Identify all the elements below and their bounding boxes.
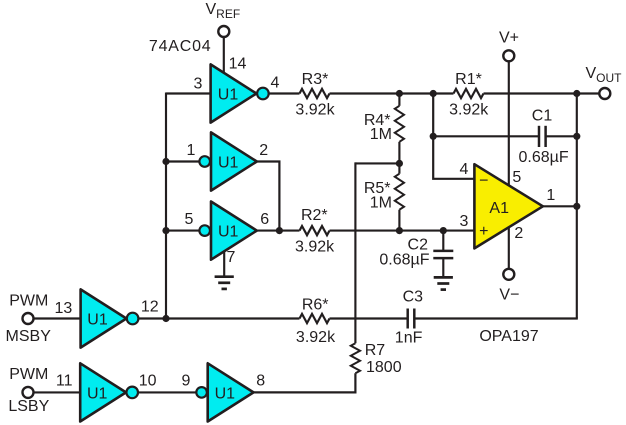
svg-text:U1: U1 [218, 155, 239, 172]
resistor R5 [395, 163, 404, 230]
terminal PWM MSBY [23, 313, 34, 324]
resistor R2 [300, 226, 330, 235]
svg-text:1nF: 1nF [395, 330, 423, 347]
wire: C3 to output column [414, 317, 578, 319]
svg-text:U1: U1 [87, 312, 108, 329]
wire: A1 pin 2 down to V- [508, 227, 510, 269]
resistor R3 [300, 89, 330, 98]
svg-text:OPA197: OPA197 [479, 328, 538, 345]
capacitor C1 [539, 126, 546, 147]
svg-text:+: + [479, 223, 488, 240]
svg-text:R2*: R2* [301, 207, 328, 224]
inverter U1A [211, 64, 257, 122]
svg-text:7: 7 [227, 249, 236, 266]
wire: U1B pin 2 output down to pin 6 node [257, 162, 280, 231]
svg-text:3.92k: 3.92k [296, 329, 336, 346]
svg-text:0.68µF: 0.68µF [379, 252, 429, 269]
svg-text:1M: 1M [370, 195, 392, 212]
wire: LSBY input to U1E [33, 391, 80, 393]
svg-text:PWM: PWM [9, 292, 48, 309]
svg-text:13: 13 [55, 300, 73, 317]
wire: R6 to C3 [330, 317, 408, 319]
pin bubble U1D output (pin 12) [127, 313, 139, 325]
junction (inverting branch top) [430, 90, 437, 97]
wire: A1 output (pin 1) [543, 205, 577, 207]
svg-text:11: 11 [56, 373, 73, 390]
inverter U1D [81, 289, 127, 347]
junction (pin 6 / pin 2 node) [276, 227, 283, 234]
pin bubble U1A output (pin 4) [257, 88, 269, 100]
wire: U1E output to U1F input [138, 391, 195, 393]
svg-text:R7: R7 [365, 342, 386, 359]
svg-text:10: 10 [139, 373, 157, 390]
wire: R4/R5 midpoint to mid column [355, 162, 399, 164]
ground (U1C pin 7) [215, 277, 234, 289]
wire: R3 to R1 [330, 92, 454, 94]
svg-text:1800: 1800 [366, 359, 402, 376]
wire: MSBY input to U1D [33, 317, 80, 319]
junction (R5 bottom on + input net) [396, 227, 403, 234]
svg-text:R1*: R1* [455, 71, 482, 88]
inverter U1F [208, 363, 254, 421]
junction (R4/R5 midpoint) [396, 160, 403, 167]
svg-text:1M: 1M [370, 126, 392, 143]
svg-text:3: 3 [460, 213, 469, 230]
wire: C1 left lead [433, 135, 539, 137]
svg-text:V−: V− [499, 286, 519, 303]
svg-text:3.92k: 3.92k [449, 101, 489, 118]
op-amp A1 [474, 164, 543, 248]
junction (A1 output on column) [573, 203, 580, 210]
svg-text:5: 5 [512, 169, 521, 186]
resistor R4 [395, 94, 404, 164]
svg-text:U1: U1 [87, 386, 108, 403]
svg-text:U1: U1 [218, 87, 239, 104]
pin bubble U1C input (pin 5) [199, 225, 210, 236]
svg-text:C1: C1 [532, 107, 553, 124]
junction (C1 left) [430, 133, 437, 140]
wire: R2 to op-amp noninverting input [330, 230, 475, 232]
wire: R7 bottom to U1F output [253, 373, 355, 392]
svg-text:U1: U1 [218, 224, 239, 241]
svg-text:−: − [479, 172, 488, 189]
svg-text:2: 2 [514, 225, 523, 242]
wire: output column (VOUT node down to C3 wire) [576, 94, 578, 319]
wire: U1A output to R3 [269, 92, 299, 94]
terminal PWM LSBY [23, 387, 34, 398]
resistor R1 [454, 89, 484, 98]
capacitor C3 [408, 309, 415, 329]
wire: VREF stub down to U1A pin 14 [223, 37, 225, 75]
svg-text:2: 2 [259, 142, 268, 159]
wire: inverting input branch (top node down to pin 4) [433, 94, 474, 179]
terminal VREF [218, 26, 229, 37]
wire: mid column down to R7/C3 node [354, 162, 356, 343]
svg-text:1: 1 [546, 187, 555, 204]
inverter U1E [80, 363, 126, 421]
ground (C2) [434, 277, 453, 289]
svg-text:74AC04: 74AC04 [149, 38, 212, 55]
junction (left bus at pin 1) [162, 158, 169, 165]
inverter U1C [211, 202, 257, 260]
wire: V+ down to A1 pin 5 [508, 61, 510, 186]
svg-text:3.92k: 3.92k [295, 238, 335, 255]
svg-text:6: 6 [260, 211, 269, 228]
wire: C2 top lead [442, 231, 444, 251]
wire: left input bus (pins 3/1/5 to PWM MSBY node) [165, 93, 167, 319]
junction (R3/R4 node) [396, 90, 403, 97]
svg-text:14: 14 [229, 55, 247, 72]
resistor R7 [351, 343, 360, 373]
inverter U1B [211, 132, 257, 190]
wire: pin 3 input of U1A [166, 92, 211, 94]
svg-text:1: 1 [187, 142, 196, 159]
svg-text:V+: V+ [499, 30, 519, 47]
svg-text:U1: U1 [215, 386, 236, 403]
svg-text:PWM: PWM [9, 366, 48, 383]
terminal V- [503, 269, 514, 280]
wire: R1 to VOUT [484, 92, 600, 94]
terminal VOUT [599, 88, 610, 99]
junction (C2 top on + input net) [440, 227, 447, 234]
svg-text:A1: A1 [489, 200, 509, 217]
svg-text:4: 4 [270, 75, 279, 92]
capacitor C2 [433, 251, 453, 258]
junction (left bus on MSBY node) [162, 315, 169, 322]
svg-text:5: 5 [185, 211, 194, 228]
pin bubble U1F input (pin 9) [196, 387, 207, 398]
svg-text:8: 8 [256, 373, 265, 390]
svg-text:4: 4 [460, 161, 469, 178]
pin bubble U1B input (pin 1) [199, 156, 210, 167]
svg-text:R6*: R6* [302, 296, 329, 313]
wire: U1D output to R6 (MSBY node) [139, 317, 300, 319]
wire: pin 5 input of U1C [166, 230, 199, 232]
junction (left bus at pin 5) [162, 227, 169, 234]
wire: pin 1 input of U1B [166, 160, 199, 162]
junction (output node top) [573, 90, 580, 97]
svg-text:C3: C3 [403, 289, 424, 306]
wire: pin 6 node to R2 [257, 230, 300, 232]
svg-text:MSBY: MSBY [6, 328, 52, 345]
svg-text:9: 9 [182, 373, 191, 390]
pin bubble U1E output (pin 10) [126, 387, 138, 399]
svg-text:3.92k: 3.92k [295, 102, 335, 119]
svg-text:LSBY: LSBY [8, 398, 49, 415]
svg-text:3: 3 [194, 76, 203, 93]
svg-text:12: 12 [141, 298, 159, 315]
wire: C2 bottom lead to ground [442, 258, 444, 277]
junction (C1 right on output column) [573, 133, 580, 140]
wire: U1C pin 7 to ground [223, 251, 225, 277]
wire: C1 right lead [546, 135, 577, 137]
svg-text:0.68µF: 0.68µF [519, 149, 569, 166]
resistor R6 [300, 314, 330, 323]
terminal V+ [503, 50, 514, 61]
svg-text:R3*: R3* [302, 71, 329, 88]
